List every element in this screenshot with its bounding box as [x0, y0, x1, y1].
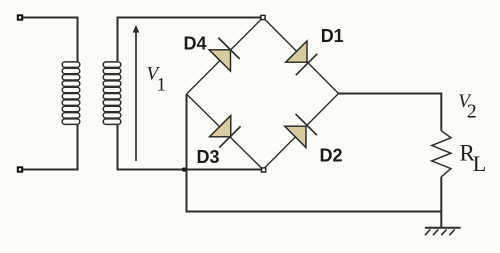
- diode D4: [209, 38, 240, 72]
- junction secondary-return: [182, 167, 186, 171]
- svg-text:2: 2: [467, 101, 477, 123]
- inductor secondary winding: [103, 62, 121, 125]
- wire bridge arm bottom-right: [263, 94, 339, 170]
- wire primary bottom: [22, 125, 78, 170]
- svg-text:D1: D1: [321, 26, 344, 46]
- resistor RL: [432, 131, 451, 177]
- wire left node to bottom rail: [187, 94, 442, 212]
- wire resistor to ground: [440, 177, 442, 228]
- inductor primary winding: [62, 62, 80, 125]
- svg-text:1: 1: [157, 75, 167, 96]
- wire output top: [339, 94, 442, 131]
- node AC bottom: [262, 168, 266, 172]
- wire primary top: [22, 18, 78, 63]
- wire bridge arm top-right: [263, 18, 339, 94]
- terminal input top: [18, 15, 22, 19]
- ground: [425, 228, 461, 235]
- svg-text:D2: D2: [320, 145, 343, 165]
- node AC top: [261, 15, 265, 19]
- svg-text:D3: D3: [197, 147, 220, 167]
- arrow V1 polarity: [133, 25, 140, 161]
- diode D3: [210, 116, 241, 148]
- svg-text:D4: D4: [184, 33, 207, 53]
- diode D2: [285, 114, 317, 148]
- wire bridge arm bottom-left: [187, 94, 264, 170]
- label V1: [147, 64, 167, 96]
- svg-text:L: L: [473, 151, 486, 176]
- label RL: [460, 141, 487, 176]
- terminal input bottom: [18, 167, 22, 171]
- wire secondary bottom: [118, 125, 262, 170]
- label V2: [458, 91, 477, 123]
- wire bridge arm top-left: [187, 18, 264, 95]
- wire secondary top: [118, 18, 262, 62]
- diode D1: [286, 41, 318, 75]
